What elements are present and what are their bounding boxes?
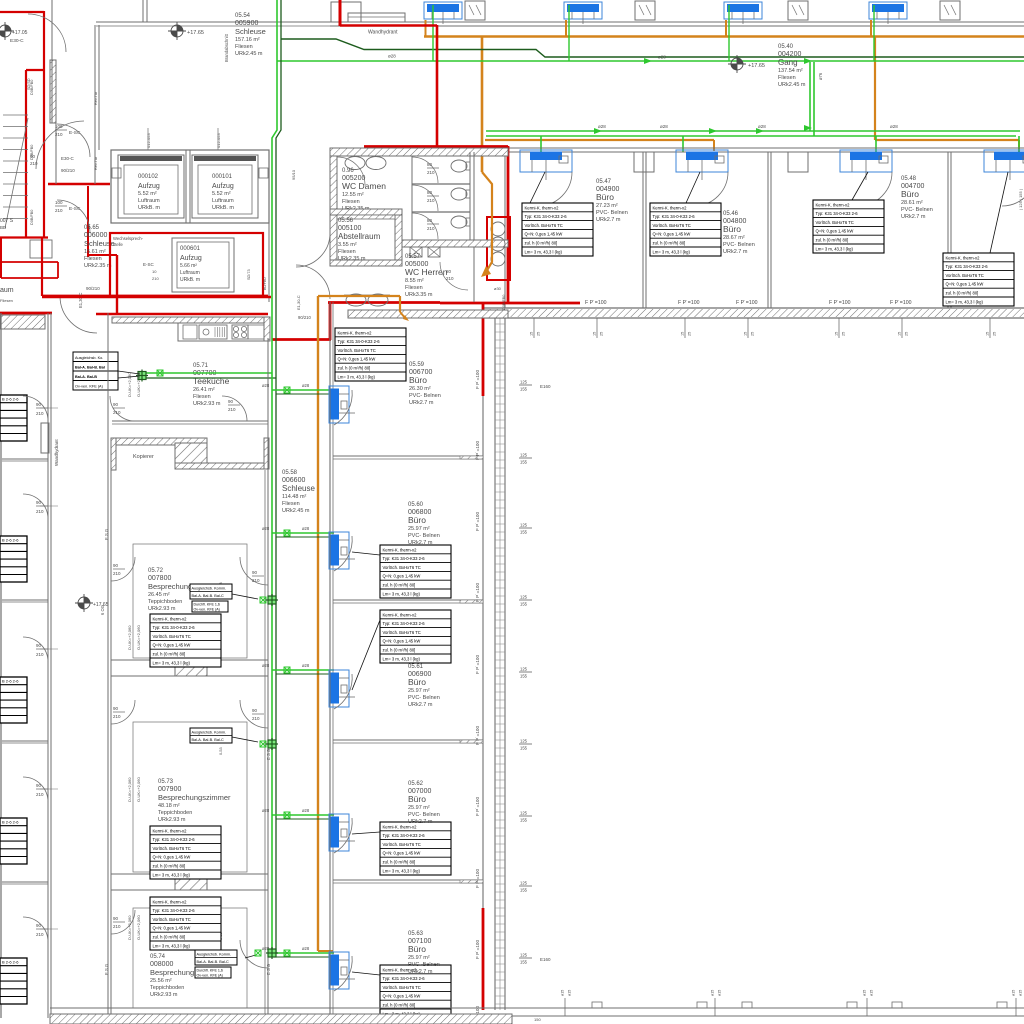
svg-text:Aufzug: Aufzug — [138, 183, 160, 190]
svg-text:ø15: ø15 — [870, 990, 874, 996]
svg-text:Teppichboden: Teppichboden — [158, 810, 192, 816]
wall: office partition y600 — [333, 599, 483, 601]
svg-text:05.57: 05.57 — [405, 254, 421, 260]
wall: top band outer wall — [142, 0, 144, 22]
radiator upper row — [424, 2, 462, 24]
svg-text:Rev.Tür: Rev.Tür — [94, 91, 98, 105]
svg-text:ø30: ø30 — [494, 286, 502, 291]
svg-text:URk2.7 m: URk2.7 m — [408, 702, 433, 708]
svg-text:48.18 m²: 48.18 m² — [158, 803, 180, 809]
survey marker top-left — [0, 22, 14, 40]
survey marker schleuse 5900 — [168, 22, 186, 40]
svg-text:PVC- Belnen: PVC- Belnen — [408, 962, 440, 968]
Abstellraum hatched box — [395, 215, 402, 260]
svg-text:05.65: 05.65 — [84, 225, 100, 231]
door arc left column y396 — [23, 396, 48, 421]
svg-text:ø28: ø28 — [302, 383, 310, 388]
WC Herren label — [405, 254, 448, 298]
meeting room 2 door — [240, 700, 268, 728]
svg-text:F P˙=100: F P˙=100 — [736, 300, 758, 306]
office 006800 radiator — [329, 532, 355, 569]
svg-text:Fliesen: Fliesen — [235, 44, 253, 50]
shaft boxes above wall — [465, 1, 485, 20]
svg-text:006600: 006600 — [282, 477, 305, 484]
teekueche valve label box — [73, 352, 118, 390]
svg-text:25.97 m²: 25.97 m² — [408, 526, 430, 532]
svg-text:URkB. m: URkB. m — [180, 277, 200, 283]
svg-text:006000: 006000 — [84, 232, 107, 239]
svg-text:210: 210 — [55, 132, 63, 137]
svg-text:Fliesen: Fliesen — [84, 256, 102, 262]
svg-text:15: 15 — [744, 332, 748, 336]
svg-text:05.74: 05.74 — [150, 954, 166, 960]
svg-text:F P˙=100: F P˙=100 — [829, 300, 851, 306]
svg-text:05.47: 05.47 — [596, 179, 612, 185]
svg-text:Büro: Büro — [409, 375, 427, 385]
svg-text:25: 25 — [905, 332, 909, 336]
svg-text:05.59: 05.59 — [409, 362, 425, 368]
svg-text:80: 80 — [446, 269, 452, 274]
svg-text:Fliesen: Fliesen — [342, 199, 360, 205]
svg-text:E160: E160 — [540, 957, 551, 962]
svg-text:ø15: ø15 — [863, 990, 867, 996]
svg-text:URk3.35 m: URk3.35 m — [405, 292, 433, 298]
svg-text:F P˙=100: F P˙=100 — [475, 441, 480, 460]
svg-text:210: 210 — [36, 411, 44, 416]
svg-text:15: 15 — [898, 332, 902, 336]
pipe light green supply main (upper) — [277, 60, 1024, 62]
svg-text:210: 210 — [228, 407, 236, 412]
orange pipe through shaft — [482, 172, 492, 272]
svg-text:90: 90 — [36, 783, 42, 788]
svg-text:F P˙=100: F P˙=100 — [475, 940, 480, 959]
svg-text:ø28: ø28 — [758, 124, 766, 129]
svg-text:Fliesen: Fliesen — [193, 394, 211, 400]
door arc left column y917 — [23, 917, 48, 942]
door arcs schleuse — [36, 121, 84, 169]
wall: WC mid hatched — [330, 209, 402, 215]
wall: office partition y456 — [333, 455, 483, 457]
kitchen door arcs — [110, 396, 135, 421]
svg-text:D-UK=+2,060: D-UK=+2,060 — [127, 915, 132, 940]
svg-text:15: 15 — [835, 332, 839, 336]
pipe pair gang riser — [809, 62, 811, 131]
svg-text:E S G: E S G — [104, 529, 109, 540]
svg-text:25.56 m²: 25.56 m² — [150, 978, 172, 984]
svg-text:80: 80 — [427, 190, 433, 195]
svg-text:210: 210 — [427, 170, 435, 175]
door arc left column y494 — [23, 494, 48, 519]
meeting room 1 label — [148, 568, 221, 612]
left window table y536 — [0, 536, 27, 582]
pipe orange office feed — [485, 139, 714, 141]
elevator shaft 000101 — [192, 155, 258, 218]
pipe branch to radiator y815 — [272, 814, 334, 816]
svg-text:95/10: 95/10 — [291, 169, 296, 180]
svg-text:PVC- Belnen: PVC- Belnen — [408, 533, 440, 539]
svg-text:210: 210 — [427, 226, 435, 231]
svg-text:05.54: 05.54 — [235, 13, 251, 19]
svg-text:05.73: 05.73 — [158, 779, 174, 785]
svg-text:05.58: 05.58 — [282, 470, 298, 476]
svg-text:Teppichboden: Teppichboden — [150, 985, 184, 991]
office 006700 table — [335, 328, 406, 381]
svg-text:210: 210 — [446, 276, 454, 281]
meeting room 2 table — [150, 826, 221, 879]
svg-text:ø15: ø15 — [1019, 990, 1023, 996]
meeting room 1 table — [150, 614, 221, 667]
office 007100 label — [408, 931, 440, 975]
svg-text:URk2.7 m: URk2.7 m — [408, 540, 433, 546]
pipe light green main vertical — [272, 0, 277, 953]
svg-text:URk2.93 m: URk2.93 m — [148, 606, 176, 612]
red schleuse right wall — [87, 186, 89, 257]
svg-text:URk2.7 m: URk2.7 m — [408, 969, 433, 975]
svg-text:90: 90 — [113, 916, 119, 921]
svg-text:PVC- Belnen: PVC- Belnen — [723, 242, 755, 248]
partition meeting 1/2 — [111, 659, 268, 661]
svg-text:004200: 004200 — [778, 51, 801, 58]
wall: corridor wall C x108 — [107, 313, 109, 1018]
svg-text:URk2.7 m: URk2.7 m — [901, 214, 926, 220]
svg-text:05.62: 05.62 — [408, 781, 424, 787]
wall: below WC herren hatched — [348, 310, 508, 318]
svg-text:210: 210 — [36, 932, 44, 937]
svg-text:URk2.35 m: URk2.35 m — [338, 256, 366, 262]
red elbow to kitchen — [329, 302, 332, 340]
door arc top-left — [28, 14, 66, 52]
svg-text:Luftraum: Luftraum — [138, 198, 160, 204]
wall: office partition y740 — [333, 739, 483, 741]
valve cluster y600 — [260, 597, 266, 603]
survey marker gang — [728, 55, 746, 73]
svg-text:ø28: ø28 — [302, 663, 310, 668]
svg-text:URk2.7 m: URk2.7 m — [409, 400, 434, 406]
meeting room 3 door — [240, 940, 268, 968]
svg-text:150: 150 — [534, 1017, 541, 1022]
red fire line office row — [440, 302, 580, 305]
svg-text:E1,30-C: E1,30-C — [78, 293, 83, 308]
svg-text:25: 25 — [600, 332, 604, 336]
svg-text:15: 15 — [530, 332, 534, 336]
svg-text:0-53: 0-53 — [219, 747, 223, 755]
svg-text:Büro: Büro — [723, 224, 741, 234]
orange WC herren line — [318, 295, 400, 297]
svg-text:Bal-A. Bal-B: Bal-A. Bal-B — [75, 375, 97, 379]
svg-text:5.52 m²: 5.52 m² — [212, 191, 231, 197]
svg-text:Büro: Büro — [408, 794, 426, 804]
red horizontal y302 — [328, 301, 440, 304]
svg-text:114.48 m²: 114.48 m² — [282, 494, 307, 500]
green office feed drops — [540, 136, 542, 152]
office 006700 label — [409, 362, 441, 406]
radiators office row — [520, 150, 572, 180]
svg-text:Bal-A. Bal-B. Bal: Bal-A. Bal-B. Bal — [75, 366, 105, 370]
stairwell red fire walls — [0, 11, 44, 13]
svg-text:25: 25 — [751, 332, 755, 336]
meeting room 3 label — [150, 954, 194, 998]
stove — [232, 325, 248, 339]
pipe orange riser to shaft — [481, 36, 484, 172]
survey marker left corridor — [75, 594, 93, 612]
meeting room inner outlines — [133, 544, 247, 658]
pipe branch to radiator y533 — [272, 532, 334, 534]
svg-text:90: 90 — [113, 402, 119, 407]
office 006900 label — [408, 664, 440, 708]
svg-text:Kopierer: Kopierer — [133, 454, 154, 460]
svg-text:URk2.93 m: URk2.93 m — [150, 992, 178, 998]
svg-text:100: 100 — [55, 200, 63, 205]
svg-text:URk2.93 m: URk2.93 m — [158, 817, 186, 823]
stair treads — [3, 114, 28, 116]
pipe orange supply main (upper) — [424, 35, 1024, 38]
svg-text:F P˙=100: F P˙=100 — [475, 655, 480, 674]
svg-text:26.41 m²: 26.41 m² — [193, 387, 215, 393]
svg-text:+17.05: +17.05 — [12, 30, 28, 36]
svg-text:ø28: ø28 — [262, 383, 270, 388]
office row labels — [596, 179, 628, 223]
pipe branch to radiator y390 — [272, 389, 334, 391]
WC Herren sinks — [346, 294, 366, 306]
svg-text:D0B/FB0: D0B/FB0 — [502, 295, 506, 310]
svg-text:210: 210 — [152, 276, 159, 281]
wall: outer east wall x495-505 — [494, 318, 496, 1010]
svg-text:05.48: 05.48 — [901, 176, 917, 182]
kitchen bottom wall — [112, 420, 268, 422]
svg-text:26.30 m²: 26.30 m² — [409, 386, 431, 392]
schleuse 005900 label — [235, 13, 266, 57]
pipe orange riser x875 — [874, 37, 876, 140]
red shaft box — [487, 217, 510, 280]
svg-text:PVC- Belnen: PVC- Belnen — [408, 812, 440, 818]
svg-text:90/210: 90/210 — [86, 286, 100, 291]
svg-text:90: 90 — [252, 708, 258, 713]
svg-text:F P˙=100: F P˙=100 — [890, 300, 912, 306]
sink unit — [199, 325, 227, 339]
svg-text:05.46: 05.46 — [723, 211, 739, 217]
svg-text:90: 90 — [252, 570, 258, 575]
svg-text:Gang: Gang — [778, 58, 798, 67]
svg-text:007 S: 007 S — [0, 218, 14, 224]
svg-text:Rev.Tür: Rev.Tür — [94, 156, 98, 170]
WC stalls walls — [411, 156, 413, 240]
svg-text:007800: 007800 — [148, 575, 171, 582]
svg-text:URkB. m: URkB. m — [212, 205, 234, 211]
office shafts in rooms — [634, 152, 654, 172]
office 006800 table — [380, 545, 451, 598]
svg-text:E30-C: E30-C — [10, 38, 24, 44]
svg-text:D-UK=+2,060: D-UK=+2,060 — [127, 372, 132, 397]
svg-text:ø28: ø28 — [388, 54, 396, 59]
svg-text:25: 25 — [537, 332, 541, 336]
gang room label — [778, 44, 806, 88]
svg-text:ø15: ø15 — [718, 990, 722, 996]
svg-text:90/210: 90/210 — [298, 315, 311, 320]
svg-text:stelle: stelle — [113, 242, 123, 247]
svg-text:O-UK=+2,060: O-UK=+2,060 — [136, 777, 141, 802]
window marks east wall — [519, 380, 532, 392]
svg-text:Wandhydrant: Wandhydrant — [54, 439, 59, 466]
svg-text:005900: 005900 — [235, 20, 258, 27]
svg-text:aum: aum — [0, 287, 14, 294]
svg-text:ø28: ø28 — [658, 55, 666, 60]
svg-text:Büro: Büro — [408, 677, 426, 687]
svg-text:B0/FB0: B0/FB0 — [263, 277, 267, 290]
office 007000 table — [380, 822, 451, 875]
spec tables office row — [522, 203, 593, 256]
svg-text:008000: 008000 — [150, 961, 173, 968]
wall: meeting rooms right wall x268 — [267, 338, 269, 1018]
svg-text:WC Herren: WC Herren — [405, 267, 448, 277]
svg-text:ø15: ø15 — [1012, 990, 1016, 996]
svg-text:F P˙=100: F P˙=100 — [585, 300, 607, 306]
svg-text:05.60: 05.60 — [408, 502, 424, 508]
svg-text:ø28: ø28 — [598, 124, 606, 129]
svg-text:137.54 m²: 137.54 m² — [778, 68, 803, 74]
WC Damen sinks — [344, 155, 386, 157]
svg-text:ø15: ø15 — [561, 990, 565, 996]
toilets — [451, 160, 467, 172]
svg-text:Büro: Büro — [596, 192, 614, 202]
meeting room 2 label — [158, 779, 231, 823]
door arcs office row — [538, 172, 572, 206]
valve cluster y744 — [260, 741, 266, 747]
svg-text:Büro: Büro — [408, 944, 426, 954]
svg-text:WC Damen: WC Damen — [342, 181, 386, 191]
wall: offices left wall x330 — [329, 302, 331, 1015]
red wall y313 left — [0, 312, 52, 315]
svg-text:8.55 m²: 8.55 m² — [405, 278, 424, 284]
svg-text:210: 210 — [113, 410, 121, 415]
svg-text:210: 210 — [113, 714, 121, 719]
office 007000 radiator — [329, 814, 355, 851]
svg-text:D-UK=+2,060: D-UK=+2,060 — [127, 777, 132, 802]
wall x95 — [94, 25, 96, 184]
svg-text:URk2.93 m: URk2.93 m — [193, 401, 221, 407]
svg-text:25: 25 — [993, 332, 997, 336]
office 006700 radiator — [329, 386, 355, 423]
svg-text:210: 210 — [252, 716, 260, 721]
svg-text:Fliesen: Fliesen — [338, 249, 356, 255]
svg-text:Fliesen: Fliesen — [405, 285, 423, 291]
svg-text:PVC- Belnen: PVC- Belnen — [408, 695, 440, 701]
wall: left partition y882 — [2, 881, 48, 883]
wall: left partition y600 — [2, 599, 48, 601]
svg-text:ø28: ø28 — [262, 526, 270, 531]
svg-text:90: 90 — [113, 563, 119, 568]
svg-text:15: 15 — [681, 332, 685, 336]
red corridor wall — [42, 295, 268, 298]
svg-text:10: 10 — [152, 269, 157, 274]
svg-text:27.23 m²: 27.23 m² — [596, 203, 618, 209]
svg-text:F P˙=100: F P˙=100 — [475, 583, 480, 602]
office 006800 label — [408, 502, 440, 546]
meeting room 1 door — [240, 557, 268, 585]
red y313 kitchen top — [96, 313, 268, 316]
svg-text:Aufzug: Aufzug — [180, 255, 202, 262]
svg-text:000101: 000101 — [212, 174, 233, 180]
svg-text:F P˙=100: F P˙=100 — [475, 869, 480, 888]
svg-text:Abstellraum: Abstellraum — [338, 232, 381, 241]
svg-text:URkB. m: URkB. m — [138, 205, 160, 211]
svg-text:Wandhydrant: Wandhydrant — [368, 30, 398, 36]
svg-text:80: 80 — [427, 218, 433, 223]
svg-text:PVC- Belnen: PVC- Belnen — [409, 393, 441, 399]
red riser wall x508 — [507, 146, 510, 303]
office 007100 radiator — [329, 952, 355, 989]
svg-text:90: 90 — [113, 706, 119, 711]
svg-text:25.97 m²: 25.97 m² — [408, 805, 430, 811]
svg-text:E S G: E S G — [104, 964, 109, 975]
green teekueche branch — [142, 372, 272, 374]
svg-text:Brandabschnitt: Brandabschnitt — [224, 33, 229, 62]
svg-text:ø28: ø28 — [302, 946, 310, 951]
svg-text:05.63: 05.63 — [408, 931, 424, 937]
svg-text:Büro: Büro — [408, 515, 426, 525]
svg-text:3.55 m²: 3.55 m² — [338, 242, 357, 248]
corridor right of elevators: door arcs — [296, 233, 330, 267]
wall: left partition y459 — [2, 458, 48, 460]
svg-text:O-UK=+2,060: O-UK=+2,060 — [136, 372, 141, 397]
wall: bottom south wing — [512, 1007, 1024, 1009]
wall: left outer — [0, 313, 2, 1018]
svg-text:Ausgleichsb. Ko.: Ausgleichsb. Ko. — [75, 356, 103, 360]
WC Damen label — [342, 168, 386, 212]
stair wall hatch — [50, 60, 56, 123]
svg-text:ø28: ø28 — [262, 663, 270, 668]
svg-text:Luftraum: Luftraum — [180, 270, 200, 276]
svg-text:90: 90 — [36, 500, 42, 505]
svg-text:Besprechungszimmer: Besprechungszimmer — [158, 793, 231, 802]
svg-text:E1,30-C: E1,30-C — [296, 295, 301, 310]
svg-text:PVC- Belnen: PVC- Belnen — [901, 207, 933, 213]
svg-text:ø28: ø28 — [890, 124, 898, 129]
elevator block outer walls — [111, 150, 269, 223]
schleuse 006600 label — [282, 470, 315, 514]
red wall above schleuse 006000 — [48, 183, 110, 185]
meeting room left doors — [111, 557, 135, 581]
red fire wall y146 WC top — [364, 145, 508, 148]
svg-text:000601: 000601 — [180, 246, 201, 252]
elevator shaft 000102 — [118, 155, 184, 218]
red y297 left — [42, 296, 271, 299]
svg-text:210: 210 — [55, 208, 63, 213]
svg-text:ø28: ø28 — [302, 808, 310, 813]
svg-text:210: 210 — [113, 924, 121, 929]
office 007100 table — [380, 965, 451, 1018]
office 006900 table — [380, 610, 451, 663]
red fire wall line (vertical x340) — [339, 0, 342, 26]
wall mullion ticks east wall — [495, 323, 505, 325]
pipe dark green return main (upper) — [281, 39, 1024, 57]
left window table y395 — [0, 395, 27, 441]
WC Herren door arc — [440, 262, 468, 290]
svg-text:Teppichboden: Teppichboden — [148, 599, 182, 605]
svg-text:E160: E160 — [540, 384, 551, 389]
wall: office row bottom wall — [483, 307, 1024, 309]
svg-text:PVC- Belnen: PVC- Belnen — [596, 210, 628, 216]
svg-text:90: 90 — [228, 399, 234, 404]
svg-text:Fliesen: Fliesen — [282, 501, 300, 507]
svg-text:210: 210 — [113, 571, 121, 576]
svg-text:Schleuse: Schleuse — [282, 484, 315, 493]
svg-text:+17.65: +17.65 — [748, 63, 765, 69]
svg-text:F P˙=100: F P˙=100 — [678, 300, 700, 306]
svg-text:210: 210 — [252, 578, 260, 583]
svg-text:F P˙=100: F P˙=100 — [475, 797, 480, 816]
svg-text:+17.65: +17.65 — [187, 30, 204, 36]
svg-text:5.52 m²: 5.52 m² — [138, 191, 157, 197]
